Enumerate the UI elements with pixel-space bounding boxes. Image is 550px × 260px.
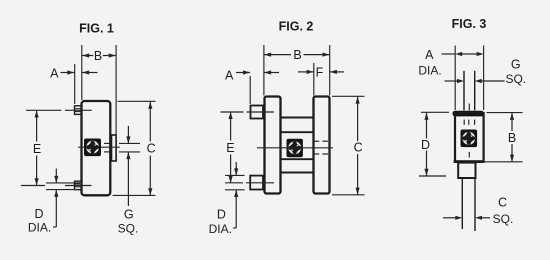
fig3 dimension line A	[442, 52, 484, 56]
fig3 label D	[421, 138, 430, 152]
svg-text:B: B	[293, 48, 301, 62]
fig3 top pin left edge	[463, 71, 465, 111]
fig3 bottom pin right edge	[474, 178, 476, 231]
fig3 label G-SQ.	[505, 72, 526, 86]
fig2 dimension arrow D-bottom leader	[233, 190, 238, 228]
fig1 ext line screw-bottom	[104, 151, 140, 153]
fig1 dimension arrow D-bottom leader	[53, 190, 58, 227]
fig2 ext line pin-top	[225, 174, 245, 176]
title FIG. 3	[452, 17, 487, 31]
fig3 ext line top-right	[487, 112, 523, 114]
svg-text:C: C	[147, 142, 156, 156]
fig3 ext line bottom-right	[483, 161, 523, 163]
svg-text:FIG. 2: FIG. 2	[279, 19, 314, 33]
fig3 dimension line G	[445, 79, 505, 83]
svg-text:E: E	[226, 141, 234, 155]
fig2 top pin	[251, 106, 264, 119]
fig2 ext line pin-bottom	[225, 189, 245, 191]
fig3 ext line collar-bottom	[419, 175, 446, 177]
fig2 label D	[217, 208, 226, 222]
fig1 label SQ.	[118, 222, 139, 236]
fig1 top pin	[75, 106, 82, 115]
fig3 adjustment screw	[461, 130, 478, 148]
fig1 ext line pin-bottom	[46, 189, 80, 191]
fig1 dimension arrow G-bottom leader	[126, 152, 130, 206]
fig3 bottom collar	[458, 163, 475, 178]
fig1 adjustment screw	[84, 139, 101, 157]
fig1 ext line body-left	[81, 45, 83, 100]
fig1 dimension line C	[148, 102, 152, 196]
fig3 dimension line B	[510, 113, 514, 162]
title FIG. 1	[79, 21, 114, 35]
svg-text:FIG. 1: FIG. 1	[79, 21, 114, 35]
fig3 ext line top-left	[421, 111, 449, 113]
fig2 hidden line screw-bottom	[315, 153, 329, 155]
svg-text:A: A	[425, 48, 434, 62]
svg-text:G: G	[124, 208, 134, 222]
fig2 screw axis centerline	[257, 147, 333, 149]
title FIG. 2	[279, 19, 314, 33]
svg-text:D: D	[34, 207, 43, 221]
fig3 dimension line D	[424, 113, 428, 176]
svg-text:FIG. 3: FIG. 3	[452, 17, 487, 31]
fig1 label G	[124, 208, 134, 222]
fig1 label C	[147, 142, 156, 156]
fig3 dimension line C	[443, 216, 490, 220]
svg-text:D: D	[421, 138, 430, 152]
svg-text:DIA.: DIA.	[418, 64, 441, 78]
fig2 dimension line B	[264, 53, 329, 57]
fig1 ext line screw-top	[104, 142, 140, 144]
fig1 dimension arrow G-top	[126, 126, 130, 143]
fig3 label G	[511, 57, 521, 71]
svg-text:A: A	[50, 66, 59, 80]
fig2 ext line A-left	[249, 76, 251, 104]
svg-text:DIA.: DIA.	[28, 221, 51, 235]
fig3 label A-DIA.	[418, 64, 441, 78]
fig2 label E	[226, 141, 234, 155]
fig2 center body block	[281, 118, 314, 173]
fig2 right flange	[314, 97, 330, 194]
svg-text:DIA.: DIA.	[209, 222, 232, 236]
fig1 label E	[33, 142, 41, 156]
svg-text:SQ.: SQ.	[493, 212, 514, 226]
fig3 hidden pin lines in body	[464, 120, 474, 125]
fig2 top pin centerline	[221, 111, 275, 113]
fig2 label A	[225, 68, 234, 82]
svg-text:E: E	[33, 142, 41, 156]
fig1 ext line top-right	[118, 100, 156, 102]
fig3 centerline below screw	[468, 152, 470, 158]
fig1 ext line pin-top	[46, 182, 80, 184]
fig1 label A	[50, 66, 59, 80]
svg-text:SQ.: SQ.	[118, 222, 139, 236]
svg-text:G: G	[511, 57, 521, 71]
fig1 ext line bottom-right	[113, 194, 156, 196]
fig3 bottom pin left edge	[461, 178, 463, 229]
fig2 dimension line A	[236, 70, 279, 74]
fig2 label DIA.	[209, 222, 232, 236]
fig2 label C	[354, 141, 363, 155]
fig2 left flange	[265, 97, 281, 194]
fig2 dimension line C	[356, 97, 360, 195]
fig2 dimension line E	[229, 112, 233, 183]
fig3 label C-SQ.	[493, 212, 514, 226]
fig1 label D	[34, 207, 43, 221]
fig3 label C	[498, 196, 507, 210]
fig2 bottom pin centerline	[225, 182, 274, 184]
fig2 dimension arrow D-top	[234, 162, 238, 175]
fig1 ext line tab-right	[115, 45, 117, 135]
fig3 body	[455, 113, 484, 162]
fig1 screw centerline left	[78, 146, 85, 148]
svg-text:A: A	[225, 68, 234, 82]
fig1 tab centerline	[101, 146, 120, 148]
fig3 label B	[508, 131, 516, 145]
fig1 bottom pin centerline	[21, 185, 92, 187]
fig1 body (side view case)	[82, 101, 111, 195]
svg-text:B: B	[94, 49, 102, 63]
svg-text:SQ.: SQ.	[505, 72, 526, 86]
fig3 top pin right edge	[474, 71, 476, 111]
fig2 adjustment screw	[287, 139, 303, 157]
fig2 label F	[316, 65, 324, 79]
svg-text:F: F	[316, 65, 324, 79]
fig1 label B	[94, 49, 102, 63]
fig1 bottom pin	[75, 181, 82, 189]
fig1 dimension line B	[82, 53, 116, 57]
fig1 ext line A-left	[74, 64, 76, 104]
fig3 body bottom edge	[454, 160, 485, 163]
fig2 ext line top-right	[332, 95, 365, 97]
fig3 body top cap	[453, 111, 485, 117]
fig1 top pin centerline	[26, 109, 92, 111]
fig2 ext line rflange-left	[313, 63, 315, 96]
fig1 label DIA.	[28, 221, 51, 235]
fig1 dimension line E	[35, 111, 39, 186]
svg-text:D: D	[217, 208, 226, 222]
fig2 ext line bottom-right	[332, 194, 365, 196]
fig3 pin centerline top	[468, 104, 470, 111]
svg-text:C: C	[354, 141, 363, 155]
fig2 label B	[293, 48, 301, 62]
fig2 ext line rflange-right	[329, 45, 331, 96]
svg-text:C: C	[498, 196, 507, 210]
svg-text:B: B	[508, 131, 516, 145]
fig3 ext line body-left	[454, 46, 456, 111]
fig1 dimension arrow D-top	[54, 169, 58, 183]
fig1 dimension line A	[61, 70, 98, 74]
fig2 ext line flange-left	[263, 45, 265, 96]
fig3 ext line body-right	[483, 46, 485, 111]
fig2 dimension line F	[298, 70, 344, 74]
fig2 bottom pin	[250, 176, 263, 190]
fig3 label A	[425, 48, 434, 62]
fig1 mounting tab	[112, 135, 117, 161]
fig2 hidden line screw-top	[315, 140, 329, 142]
